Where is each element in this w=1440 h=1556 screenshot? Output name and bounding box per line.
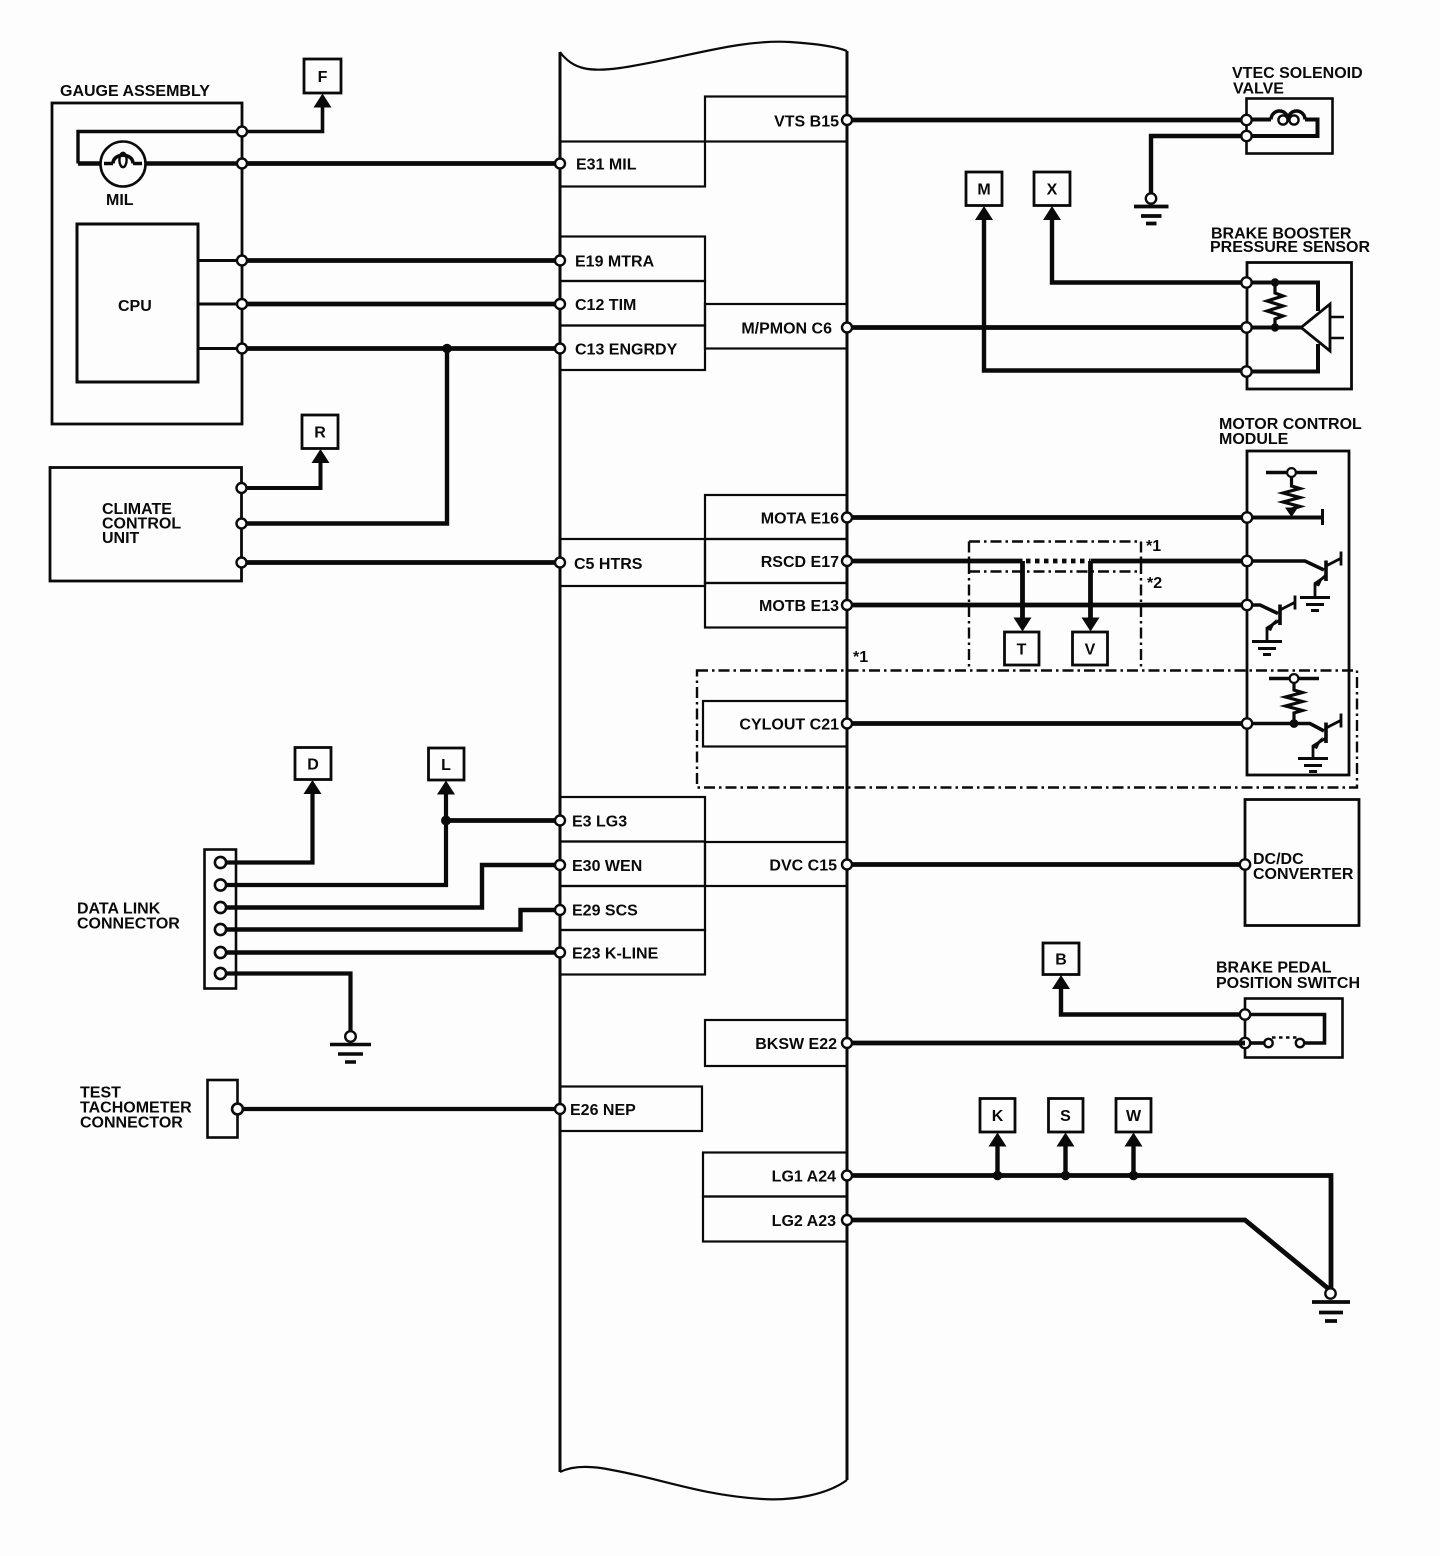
wire X to sensor pin1 <box>1052 218 1247 283</box>
ECM band right edge <box>846 51 849 1480</box>
svg-text:CONNECTOR: CONNECTOR <box>80 1115 183 1132</box>
svg-text:F: F <box>318 69 328 86</box>
svg-text:GAUGE ASSEMBLY: GAUGE ASSEMBLY <box>60 83 210 100</box>
wire CPU pin to node C13 <box>198 347 242 350</box>
svg-text:S: S <box>1060 1108 1071 1125</box>
svg-text:K: K <box>992 1108 1004 1125</box>
wire LG2 A23 <box>847 1220 1330 1290</box>
dash-dot box CYLOUT (*1) <box>697 671 1357 788</box>
ECM left terminals <box>555 159 565 169</box>
wire E31 MIL <box>242 161 560 166</box>
svg-text:MIL: MIL <box>106 192 134 209</box>
wire DLC pin1 to D <box>226 792 313 863</box>
svg-text:L: L <box>441 757 451 774</box>
svg-text:MODULE: MODULE <box>1219 431 1289 448</box>
svg-text:VTEC SOLENOID: VTEC SOLENOID <box>1232 65 1363 82</box>
ECM band wavy top edge <box>560 42 847 70</box>
svg-text:E23 K-LINE: E23 K-LINE <box>572 946 659 963</box>
node on gauge edge (MIL) <box>237 159 247 169</box>
pin box C13 ENGRDY <box>560 326 705 371</box>
module MOTB internal wire <box>1252 605 1278 614</box>
module power bar 1 <box>1266 471 1317 474</box>
wire DLC pin3 to E30 WEN <box>226 865 560 908</box>
connector M box <box>966 172 1002 206</box>
module terminal CYLOUT <box>1242 718 1252 728</box>
svg-text:B: B <box>1055 952 1067 969</box>
wire BKSW E22 <box>847 1041 1245 1046</box>
connector B arrowhead <box>1052 975 1070 989</box>
resistor R2 (module) <box>1283 477 1300 509</box>
pin box E31 MIL <box>560 142 705 187</box>
pin box MOTB E13 <box>705 583 847 628</box>
switch SW1 contacts <box>1264 1039 1272 1047</box>
svg-text:T: T <box>1017 642 1027 659</box>
data link connector box <box>205 850 237 989</box>
svg-text:D: D <box>307 757 319 774</box>
ECM band wavy bottom edge <box>560 1467 847 1500</box>
svg-text:E19 MTRA: E19 MTRA <box>575 254 655 271</box>
wire W to LG1 <box>1131 1145 1135 1176</box>
sensor internal wire pin2 <box>1252 326 1301 330</box>
VTEC solenoid valve box <box>1247 99 1333 154</box>
svg-text:LG1 A24: LG1 A24 <box>772 1169 836 1186</box>
connector R arrowhead <box>312 449 330 463</box>
connector W arrowhead <box>1125 1133 1143 1147</box>
switch terminal 1 <box>1240 1009 1250 1019</box>
pin box RSCD E17 <box>705 539 847 583</box>
wire to T <box>1020 561 1025 619</box>
svg-text:V: V <box>1085 642 1096 659</box>
sensor terminal 2 <box>1241 322 1251 332</box>
wire K to LG1 <box>995 1145 999 1176</box>
ground (VTEC valve) <box>1146 193 1156 203</box>
svg-text:X: X <box>1047 182 1058 199</box>
node CCU pin3 <box>237 558 247 568</box>
svg-text:VALVE: VALVE <box>1233 81 1284 98</box>
brake booster pressure sensor box <box>1247 263 1352 390</box>
svg-text:PRESSURE SENSOR: PRESSURE SENSOR <box>1210 239 1370 256</box>
dash-dot box T/V (*1/*2) <box>969 542 1141 671</box>
node CCU pin2 <box>237 519 247 529</box>
wire M/PMON C6 to sensor pin2 <box>847 325 1247 330</box>
wire CCU pin2 riser to C13 junction <box>242 349 448 524</box>
svg-text:*1: *1 <box>853 649 868 666</box>
svg-text:CPU: CPU <box>118 298 152 315</box>
wire RSCD E17 solid left <box>847 559 1023 564</box>
connector S box <box>1049 1099 1084 1133</box>
junction C13/climate riser <box>442 344 452 354</box>
node on gauge edge (C12) <box>237 299 247 309</box>
connector R box <box>302 415 338 449</box>
wire C13 ENGRDY <box>242 346 560 351</box>
svg-text:DVC C15: DVC C15 <box>769 858 837 875</box>
module terminal MOTA <box>1242 512 1252 522</box>
connector F arrowhead <box>314 94 332 108</box>
DC/DC terminal <box>1240 859 1250 869</box>
connector D box <box>295 748 331 780</box>
pin box C5 HTRS <box>560 539 705 586</box>
valve terminal 2 <box>1241 131 1251 141</box>
junction S/LG1 <box>1061 1171 1071 1181</box>
svg-text:E29 SCS: E29 SCS <box>572 903 638 920</box>
junction K/LG1 <box>993 1171 1003 1181</box>
connector L arrowhead <box>437 781 455 795</box>
wire valve to ground <box>1151 136 1241 194</box>
switch terminal 2 <box>1240 1038 1250 1048</box>
svg-text:*2: *2 <box>1147 575 1162 592</box>
svg-text:BRAKE PEDAL: BRAKE PEDAL <box>1216 960 1332 977</box>
wire DLC pin5 to E23 K-LINE <box>226 950 560 954</box>
svg-text:C13 ENGRDY: C13 ENGRDY <box>575 342 678 359</box>
node on gauge edge (E19) <box>237 256 247 266</box>
wire DLC pin2 riser through LG3 junction to L <box>226 793 446 886</box>
svg-text:E31 MIL: E31 MIL <box>576 157 637 174</box>
ground (Q2) <box>1252 642 1282 655</box>
wire CYLOUT C21 <box>847 721 1247 726</box>
pin box CYLOUT C21 <box>703 701 847 747</box>
connector K box <box>980 1099 1015 1133</box>
pin box E3 LG3 <box>560 797 705 842</box>
svg-text:MOTA E16: MOTA E16 <box>761 511 839 528</box>
connector V box <box>1073 632 1108 665</box>
connector D arrowhead <box>304 780 322 794</box>
wire VTS B15 to valve <box>847 118 1247 123</box>
connector X arrowhead <box>1043 206 1061 220</box>
brake pedal position switch box <box>1245 999 1343 1058</box>
wire CPU pin to node C12 <box>198 303 242 306</box>
wire C12 TIM <box>242 302 560 307</box>
svg-text:C12 TIM: C12 TIM <box>575 297 636 314</box>
sensor terminal 1 <box>1241 277 1251 287</box>
wire node to F connector riser <box>242 106 323 132</box>
svg-text:M/PMON C6: M/PMON C6 <box>741 321 832 338</box>
motor control module box <box>1247 451 1349 775</box>
node test tach pin <box>232 1104 243 1115</box>
DC/DC converter box <box>1245 800 1359 926</box>
wire MIL lamp right to node <box>143 161 242 166</box>
svg-text:M: M <box>977 182 990 199</box>
lamp MIL <box>101 142 146 187</box>
connector B box <box>1043 943 1079 975</box>
connector T box <box>1005 632 1040 665</box>
gauge assembly box <box>52 103 242 424</box>
svg-text:LG2 A23: LG2 A23 <box>772 1213 836 1230</box>
wire M to sensor pin3 <box>984 218 1247 371</box>
wire to V <box>1088 561 1093 619</box>
svg-text:E26 NEP: E26 NEP <box>570 1102 636 1119</box>
svg-text:E3 LG3: E3 LG3 <box>572 814 627 831</box>
connector M arrowhead <box>975 206 993 220</box>
test tachometer connector box <box>208 1080 238 1138</box>
wire E3 LG3 <box>446 818 560 823</box>
wire MOTA E16 <box>847 515 1247 520</box>
wire RSCD E17 dotted middle <box>1026 559 1090 564</box>
wire MOTB E13 <box>847 603 1247 608</box>
connector F box <box>304 59 341 93</box>
wire LG1 A24 <box>847 1176 1331 1289</box>
pin box LG1 A24 <box>703 1153 847 1197</box>
pin box C12 TIM <box>560 281 705 326</box>
wire DVC C15 <box>847 862 1245 867</box>
resistor R1 (sensor) <box>1267 283 1283 328</box>
pin box DVC C15 <box>705 842 847 886</box>
node on gauge edge (C13) <box>237 344 247 354</box>
sensor internal wire pin3 <box>1252 344 1318 372</box>
wire CPU pin to node E19 <box>198 259 242 262</box>
wire CCU pin1 to R <box>242 461 321 488</box>
svg-text:MOTB E13: MOTB E13 <box>759 598 839 615</box>
wire MIL lamp left stub <box>78 161 103 166</box>
svg-text:POSITION SWITCH: POSITION SWITCH <box>1216 975 1360 992</box>
wire DLC pin6 to ground <box>226 974 351 1032</box>
wire RSCD E17 solid right <box>1091 559 1248 564</box>
DLC pin terminals <box>215 857 226 868</box>
module MOTA internal wire <box>1252 516 1322 520</box>
wire F feed (node to bend, down to lamp wire) <box>78 132 242 164</box>
valve terminal 1 <box>1241 115 1251 125</box>
wire E19 MTRA <box>242 258 560 263</box>
junction L riser / E3 LG3 <box>441 816 451 826</box>
sensor terminal 3 <box>1241 366 1251 376</box>
svg-text:CONNECTOR: CONNECTOR <box>77 916 180 933</box>
switch internal wire <box>1250 1015 1325 1044</box>
pin box M/PMON C6 <box>705 304 847 349</box>
node CCU pin1 <box>237 483 247 493</box>
module terminal RSCD <box>1242 556 1252 566</box>
wire test tach to E26 NEP <box>238 1107 561 1111</box>
pin box E30 WEN <box>560 842 705 887</box>
connector X box <box>1034 172 1070 206</box>
ground (data link connector) <box>345 1031 356 1042</box>
pin box E23 K-LINE <box>560 930 705 975</box>
wire B to switch pin1 <box>1061 987 1245 1015</box>
transistor Q1 <box>1324 561 1328 582</box>
module RSCD internal wire <box>1252 561 1324 570</box>
ground (LG1/LG2) <box>1325 1288 1335 1298</box>
connector S arrowhead <box>1057 1133 1075 1147</box>
pin box MOTA E16 <box>705 495 847 539</box>
svg-text:R: R <box>314 425 326 442</box>
svg-text:*1: *1 <box>1146 538 1161 555</box>
transistor Q3 <box>1324 723 1328 744</box>
node on gauge edge (F) <box>237 127 247 137</box>
pin box E19 MTRA <box>560 237 705 282</box>
connector L box <box>429 748 465 780</box>
svg-text:C5 HTRS: C5 HTRS <box>574 556 643 573</box>
connector W box <box>1116 1099 1151 1133</box>
svg-text:RSCD E17: RSCD E17 <box>761 554 839 571</box>
sensor internal wire pin1 <box>1252 283 1318 312</box>
resistor R3 (module) <box>1286 683 1303 724</box>
svg-text:W: W <box>1126 1108 1142 1125</box>
pin box LG2 A23 <box>703 1197 847 1242</box>
module CYLOUT internal wire <box>1252 724 1324 732</box>
svg-text:UNIT: UNIT <box>102 530 140 547</box>
ECM band left edge <box>559 52 562 1472</box>
ECM right terminals <box>842 115 852 125</box>
svg-text:CYLOUT C21: CYLOUT C21 <box>739 717 839 734</box>
climate control unit box <box>50 468 242 582</box>
transistor Q2 <box>1278 605 1282 626</box>
pin box E29 SCS <box>560 886 705 930</box>
connector K arrowhead <box>989 1133 1007 1147</box>
wire DLC pin4 to E29 SCS <box>226 910 560 930</box>
module terminal MOTB <box>1242 600 1252 610</box>
ground (Q1) <box>1300 598 1330 611</box>
junction W/LG1 <box>1129 1171 1139 1181</box>
pin box VTS B15 <box>705 97 847 142</box>
solenoid coil L1 <box>1252 118 1271 122</box>
wire S to LG1 <box>1063 1145 1067 1176</box>
svg-text:BKSW E22: BKSW E22 <box>755 1036 837 1053</box>
ground (Q3) <box>1298 759 1328 772</box>
wire CCU pin3 to C5 HTRS <box>242 560 561 565</box>
svg-text:E30 WEN: E30 WEN <box>572 858 642 875</box>
module power bar 2 <box>1269 677 1319 680</box>
pin box BKSW E22 <box>705 1020 847 1066</box>
op-amp U2 (sensor) <box>1301 304 1330 351</box>
CPU box U1 <box>77 224 198 382</box>
svg-text:VTS B15: VTS B15 <box>774 114 839 131</box>
svg-text:CONVERTER: CONVERTER <box>1253 866 1354 883</box>
pin box E26 NEP <box>560 1087 702 1132</box>
